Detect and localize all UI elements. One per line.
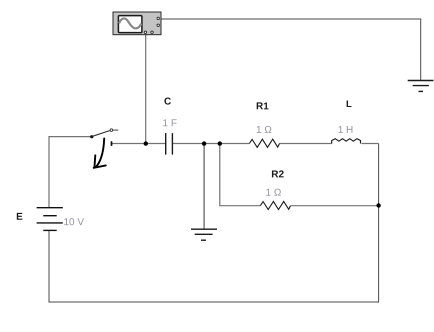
svg-text:L: L xyxy=(346,99,352,110)
svg-text:1 H: 1 H xyxy=(338,125,354,136)
svg-text:R1: R1 xyxy=(256,101,269,112)
svg-text:1 Ω: 1 Ω xyxy=(265,188,281,199)
svg-text:10 V: 10 V xyxy=(63,217,84,228)
svg-text:1 F: 1 F xyxy=(163,118,177,129)
svg-text:1 Ω: 1 Ω xyxy=(256,125,272,136)
svg-text:C: C xyxy=(164,96,171,107)
svg-text:R2: R2 xyxy=(271,169,284,180)
svg-text:E: E xyxy=(16,212,23,223)
